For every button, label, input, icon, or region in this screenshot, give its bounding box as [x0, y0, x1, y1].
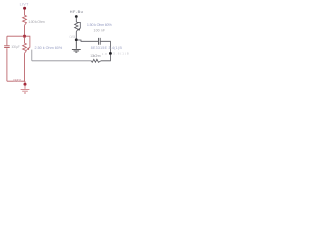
P2 wiper hook wire	[77, 22, 81, 29]
wire R1 to junction	[24, 25, 26, 35]
wire junction B to C2	[78, 40, 98, 41]
potentiometer P1	[23, 43, 27, 53]
P1 wiper arrowhead	[26, 47, 29, 50]
capacitor C1 plates	[4, 46, 10, 48]
wire down to C1 top plate	[6, 36, 8, 45]
ground (left, red)	[21, 86, 30, 93]
P2 wiper arrowhead	[77, 28, 80, 31]
node dot HF input	[75, 15, 78, 18]
svg-text:8E3315E 3.4(1)B: 8E3315E 3.4(1)B	[91, 46, 123, 50]
svg-text:OA91: OA91	[69, 35, 76, 39]
wiper output wire down	[31, 50, 33, 61]
wire junction to P1	[24, 37, 26, 43]
svg-text:1.8: 1.8	[102, 52, 107, 56]
potentiometer P2	[75, 22, 78, 32]
P1 wiper hook wire	[25, 36, 30, 49]
wire wiper output horizontal	[32, 60, 92, 62]
svg-text:5.6(1)B: 5.6(1)B	[113, 52, 129, 56]
node dot ground	[24, 83, 27, 86]
wire P2 to junction	[75, 32, 77, 39]
svg-text:LIVT: LIVT	[20, 1, 29, 6]
wire node C down to R2	[101, 55, 111, 61]
node junction A	[23, 35, 26, 38]
svg-text:1.00 k Ohm: 1.00 k Ohm	[28, 20, 45, 24]
wire P1 bottom to rail	[24, 53, 26, 81]
capacitor C2 plates	[99, 38, 101, 45]
wire HF dot to P2	[75, 18, 77, 22]
node dot C	[109, 52, 112, 55]
svg-text:1.3k Ohm: 1.3k Ohm	[90, 54, 100, 58]
svg-text:1.50 k Ohm 60%: 1.50 k Ohm 60%	[87, 23, 113, 27]
svg-text:2.50 k Ohm 60%: 2.50 k Ohm 60%	[35, 46, 63, 50]
wire C2 to node C	[101, 41, 111, 52]
svg-text:100 nF: 100 nF	[94, 29, 106, 33]
node dot junction B	[75, 38, 78, 41]
resistor R2	[91, 59, 101, 62]
wire C1 bottom to rail	[6, 48, 8, 81]
wire rail stub to ground node	[24, 81, 26, 83]
wire bottom rail	[7, 80, 25, 82]
wire junction to capacitor C1	[7, 35, 25, 37]
svg-text:HF-Bu: HF-Bu	[70, 10, 83, 14]
ground (right, gray)	[72, 41, 81, 52]
svg-text:100 µF: 100 µF	[11, 45, 20, 49]
wire supply dot to R1	[24, 10, 26, 16]
svg-text:GND1: GND1	[13, 79, 22, 83]
resistor R1	[23, 15, 27, 25]
node dot top supply	[23, 7, 26, 10]
